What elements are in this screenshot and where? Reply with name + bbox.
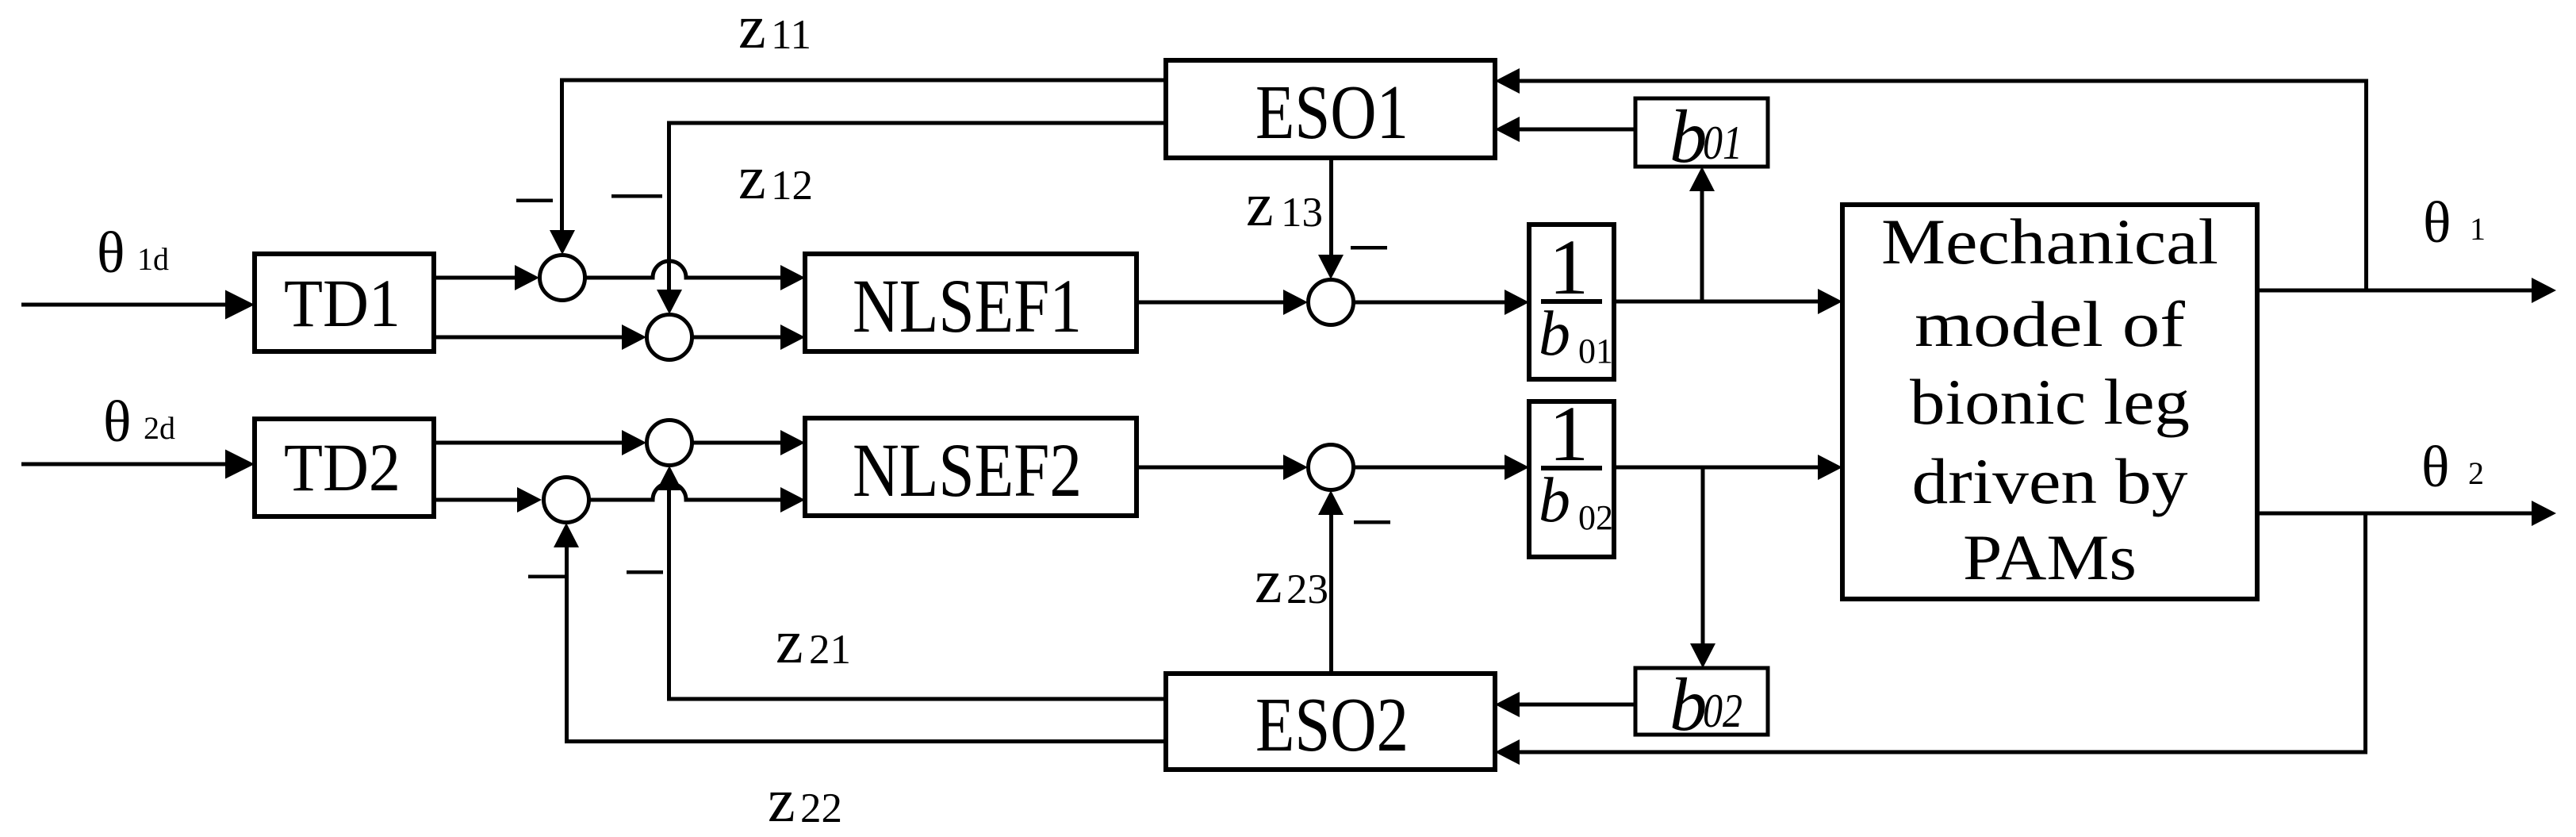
wire: z23 from ESO2 top to S2c bbox=[1318, 490, 1344, 674]
svg-text:1: 1 bbox=[2470, 211, 2486, 247]
block NLSEF1 bbox=[805, 254, 1137, 351]
svg-text:b: b bbox=[1669, 94, 1708, 179]
wire: S2a to NLSEF2 first input bbox=[692, 430, 806, 455]
svg-text:NLSEF1: NLSEF1 bbox=[853, 263, 1082, 348]
svg-text:z: z bbox=[738, 0, 766, 61]
block TD2 bbox=[255, 419, 434, 516]
svg-text:ESO1: ESO1 bbox=[1255, 70, 1409, 155]
wire: TD2 bottom output to summing junction S2b bbox=[434, 487, 542, 513]
block ESO1 bbox=[1166, 60, 1495, 158]
svg-text:θ: θ bbox=[2421, 435, 2449, 500]
wire: theta2d input line bbox=[21, 450, 255, 479]
wire: theta2 output bbox=[2257, 501, 2556, 526]
svg-text:13: 13 bbox=[1281, 190, 1323, 236]
summing junction S2a bbox=[647, 420, 692, 466]
wire: vertical down to b02 bbox=[1690, 467, 1715, 668]
wire: TD1 bottom output to summing junction S1b bbox=[434, 324, 646, 350]
svg-text:PAMs: PAMs bbox=[1963, 521, 2137, 593]
wire: b01 to ESO1 right lower input bbox=[1495, 117, 1635, 142]
svg-text:1d: 1d bbox=[137, 241, 169, 277]
node z11 label bbox=[738, 0, 811, 61]
wire: TD1 top output to summing junction S1a bbox=[434, 265, 539, 290]
block TD1 bbox=[255, 254, 434, 351]
wire: 1/b01 to Mechanical model with junction to b01 bbox=[1614, 289, 1842, 314]
wire: b02 to ESO2 right upper input bbox=[1495, 692, 1635, 717]
svg-text:01: 01 bbox=[1703, 117, 1742, 169]
svg-text:2: 2 bbox=[2468, 455, 2484, 491]
svg-text:12: 12 bbox=[771, 163, 813, 209]
wire: NLSEF2 output to summing junction S2c bbox=[1137, 455, 1308, 480]
svg-text:1: 1 bbox=[1549, 223, 1589, 311]
wire: vertical up to b01 bbox=[1689, 167, 1715, 301]
wire: S1a to NLSEF1 with crossover hop bbox=[585, 261, 806, 290]
svg-text:b: b bbox=[1669, 662, 1708, 747]
svg-text:z: z bbox=[768, 766, 795, 835]
node theta_2d input label bbox=[103, 390, 175, 455]
svg-text:22: 22 bbox=[800, 785, 842, 831]
wire: z21 feedback from ESO2 left to S2a bbox=[657, 466, 1166, 701]
summing junction S1a bbox=[540, 255, 585, 301]
wire: S2c to gain block 1/b02 bbox=[1354, 455, 1530, 480]
wire: NLSEF1 output to summing junction S1c bbox=[1137, 290, 1308, 315]
node z21 label bbox=[776, 607, 851, 676]
svg-text:z: z bbox=[776, 607, 803, 676]
svg-text:z: z bbox=[738, 143, 766, 212]
svg-text:23: 23 bbox=[1286, 566, 1328, 612]
wire: 1/b02 to Mechanical model with junction to b02 bbox=[1614, 455, 1842, 480]
summing junction S2c bbox=[1309, 445, 1354, 490]
wire: z13 from ESO1 bottom to S1c bbox=[1318, 158, 1344, 279]
wire: z22 feedback from ESO2 left to S2b bbox=[554, 523, 1166, 743]
wire: S2b to NLSEF2 with crossover hop bbox=[589, 483, 806, 513]
wire: z12 feedback from ESO1 left to S1b bbox=[657, 121, 1166, 315]
svg-text:θ: θ bbox=[2423, 190, 2451, 255]
block b01 bbox=[1635, 94, 1768, 179]
wire: S1b to NLSEF1 second input bbox=[692, 324, 806, 350]
node z22 label bbox=[768, 766, 842, 835]
gain block 1/b01 bbox=[1529, 223, 1614, 379]
svg-text:θ: θ bbox=[103, 390, 131, 455]
summing junction S1c bbox=[1309, 280, 1354, 325]
summing junction S2b bbox=[544, 478, 589, 523]
svg-text:b: b bbox=[1539, 299, 1570, 369]
node theta_1 output label bbox=[2423, 190, 2486, 255]
svg-text:11: 11 bbox=[771, 12, 811, 58]
block Mechanical model of bionic leg driven by PAMs bbox=[1842, 205, 2257, 599]
node z13 label bbox=[1246, 170, 1323, 239]
node z23 label bbox=[1255, 547, 1328, 616]
node theta_2 output label bbox=[2421, 435, 2484, 500]
minus sign at S2a bbox=[627, 570, 663, 574]
svg-text:Mechanical: Mechanical bbox=[1881, 205, 2218, 278]
minus sign at S1a bbox=[516, 199, 553, 203]
svg-text:21: 21 bbox=[809, 627, 851, 673]
svg-text:TD1: TD1 bbox=[284, 265, 401, 341]
block b02 bbox=[1635, 662, 1768, 747]
svg-text:b: b bbox=[1539, 466, 1570, 536]
node z12 label bbox=[738, 143, 813, 212]
wire: theta1 feedback to ESO1 right upper input bbox=[1495, 68, 2368, 290]
node theta_1d input label bbox=[97, 221, 169, 286]
block NLSEF2 bbox=[805, 418, 1137, 516]
wire: z11 feedback from ESO1 left to S1a bbox=[550, 79, 1166, 255]
wire: theta1 output bbox=[2257, 278, 2556, 303]
wire: S1c to gain block 1/b01 bbox=[1354, 290, 1530, 315]
minus sign at S1c bbox=[1351, 246, 1387, 250]
svg-text:model of: model of bbox=[1915, 288, 2186, 360]
wire: TD2 top output to summing junction S2a bbox=[434, 430, 646, 455]
block ESO2 bbox=[1166, 674, 1495, 770]
minus sign at S1b bbox=[611, 194, 662, 198]
svg-text:bionic leg: bionic leg bbox=[1910, 366, 2190, 438]
svg-text:1: 1 bbox=[1549, 390, 1589, 478]
svg-text:NLSEF2: NLSEF2 bbox=[853, 428, 1082, 513]
svg-text:2d: 2d bbox=[144, 410, 175, 446]
minus sign at S2c bbox=[1354, 520, 1390, 524]
svg-text:θ: θ bbox=[97, 221, 125, 286]
svg-text:ESO2: ESO2 bbox=[1255, 682, 1409, 768]
svg-text:z: z bbox=[1255, 547, 1282, 616]
svg-text:TD2: TD2 bbox=[284, 429, 401, 505]
gain block 1/b02 bbox=[1529, 390, 1614, 557]
wire: theta2 feedback to ESO2 right lower input bbox=[1495, 513, 2367, 765]
svg-text:02: 02 bbox=[1703, 685, 1742, 737]
svg-text:driven by: driven by bbox=[1912, 445, 2188, 517]
svg-text:02: 02 bbox=[1578, 498, 1613, 537]
svg-text:01: 01 bbox=[1578, 332, 1613, 371]
minus sign at S2b bbox=[528, 575, 565, 579]
wire: theta1d input line bbox=[21, 290, 255, 320]
summing junction S1b bbox=[647, 315, 692, 360]
svg-text:z: z bbox=[1246, 170, 1274, 239]
